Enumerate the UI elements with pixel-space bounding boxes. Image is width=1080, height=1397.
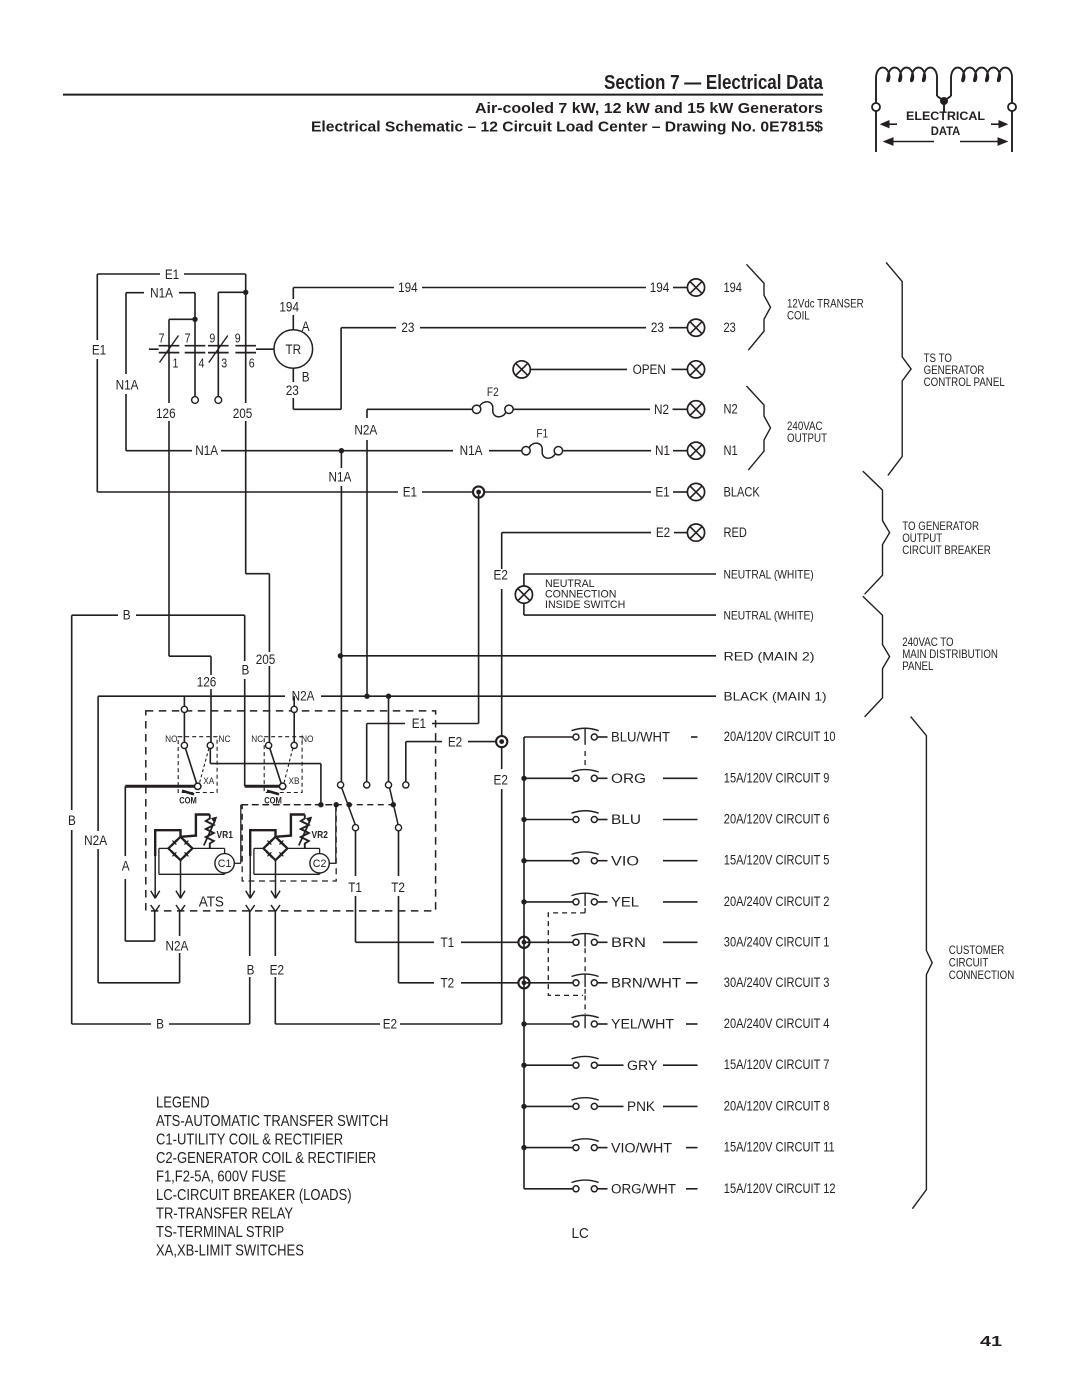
transfer contact arm 2 bbox=[390, 788, 399, 825]
svg-text:Section 7 — Electrical Data: Section 7 — Electrical Data bbox=[604, 71, 823, 94]
logo left lead wire bbox=[875, 77, 877, 103]
svg-text:205: 205 bbox=[233, 405, 253, 421]
logo right small arrow bbox=[991, 123, 1006, 125]
wire 23 row bbox=[341, 327, 396, 329]
breaker VIO/WHT bbox=[521, 1138, 834, 1155]
svg-text:15A/120V CIRCUIT 7: 15A/120V CIRCUIT 7 bbox=[724, 1056, 830, 1073]
svg-text:C1-UTILITY COIL & RECTIFIER: C1-UTILITY COIL & RECTIFIER bbox=[156, 1132, 343, 1149]
wire XA NC to C2 link bbox=[209, 749, 211, 764]
breaker VIO bbox=[521, 851, 829, 868]
wire contact1-contact2 link bbox=[169, 318, 195, 320]
svg-text:F1,F2-5A, 600V FUSE: F1,F2-5A, 600V FUSE bbox=[156, 1169, 286, 1186]
brace TS to generator control panel bbox=[886, 263, 911, 476]
svg-text:XA: XA bbox=[203, 775, 214, 786]
svg-text:15A/120V CIRCUIT 12: 15A/120V CIRCUIT 12 bbox=[724, 1179, 836, 1196]
svg-text:23: 23 bbox=[286, 382, 299, 398]
svg-text:N2A: N2A bbox=[84, 832, 107, 848]
wire A bold to XA COM bbox=[125, 785, 194, 788]
wire B bold to XB COM bbox=[245, 785, 280, 788]
logo left small arrow bbox=[882, 123, 897, 125]
wire red main 2 row bbox=[340, 655, 716, 657]
wire B left vertical bbox=[71, 615, 73, 810]
logo bottom double arrow bbox=[886, 141, 934, 143]
svg-text:BRN: BRN bbox=[611, 935, 646, 950]
svg-text:C1: C1 bbox=[218, 858, 232, 870]
svg-text:1: 1 bbox=[173, 355, 179, 370]
lamp N1 bbox=[687, 442, 704, 459]
wire 194 row bbox=[293, 287, 394, 289]
breaker YEL/WHT bbox=[521, 1015, 829, 1032]
svg-text:15A/120V CIRCUIT 11: 15A/120V CIRCUIT 11 bbox=[724, 1138, 835, 1155]
svg-text:B: B bbox=[123, 607, 131, 623]
node dot N1A/vertical bbox=[339, 448, 344, 453]
breaker BLU/WHT bbox=[524, 728, 836, 745]
svg-text:E1: E1 bbox=[655, 484, 669, 500]
svg-text:N1A: N1A bbox=[150, 285, 173, 301]
connector bullseye T2 bbox=[518, 977, 529, 988]
logo right lead wire bbox=[1011, 77, 1013, 103]
svg-text:E2: E2 bbox=[656, 524, 670, 540]
connector bullseye E2 bbox=[496, 736, 507, 747]
lamp E2 bbox=[687, 524, 704, 541]
svg-text:XB: XB bbox=[289, 775, 300, 786]
transfer relay contact 1 (pins 7/1) bbox=[149, 319, 179, 656]
svg-text:CIRCUIT: CIRCUIT bbox=[949, 957, 989, 970]
svg-text:NC: NC bbox=[219, 733, 231, 744]
breaker PNK bbox=[521, 1097, 829, 1114]
breaker bus vertical bbox=[523, 737, 525, 1189]
brace 12Vdc transfer coil bbox=[747, 264, 771, 350]
svg-text:OPEN: OPEN bbox=[633, 361, 666, 377]
svg-text:TR: TR bbox=[285, 341, 301, 357]
lamp E1 bbox=[687, 483, 704, 500]
svg-text:ORG/WHT: ORG/WHT bbox=[611, 1182, 676, 1197]
svg-text:T1: T1 bbox=[348, 879, 362, 895]
coil & rectifier C2 bbox=[246, 805, 336, 912]
svg-text:20A/240V CIRCUIT 4: 20A/240V CIRCUIT 4 bbox=[724, 1015, 830, 1032]
connector bullseye T1 bbox=[518, 937, 529, 948]
wire E1 vertical bbox=[478, 492, 480, 724]
svg-text:20A/120V CIRCUIT 8: 20A/120V CIRCUIT 8 bbox=[724, 1097, 830, 1114]
wire N2A vertical (F2 feed) bbox=[366, 409, 368, 418]
svg-text:N1A: N1A bbox=[328, 469, 351, 485]
svg-text:N2A: N2A bbox=[165, 937, 188, 953]
svg-text:E2: E2 bbox=[383, 1016, 397, 1032]
svg-text:T2: T2 bbox=[440, 974, 454, 990]
svg-text:126: 126 bbox=[197, 674, 217, 690]
C2 dashed box bbox=[242, 805, 336, 881]
svg-text:YEL/WHT: YEL/WHT bbox=[611, 1017, 674, 1032]
transfer relay contact 2 (pins 7/4) bbox=[185, 293, 206, 404]
svg-text:N1A: N1A bbox=[116, 377, 139, 393]
brace customer circuit connection bbox=[911, 717, 933, 1209]
fuse F2 bbox=[472, 386, 513, 417]
wire T1 bbox=[355, 831, 357, 876]
svg-text:ATS-AUTOMATIC TRANSFER SWITCH: ATS-AUTOMATIC TRANSFER SWITCH bbox=[156, 1113, 388, 1130]
svg-text:NEUTRAL (WHITE): NEUTRAL (WHITE) bbox=[724, 610, 814, 623]
svg-text:E1: E1 bbox=[92, 342, 106, 358]
svg-text:T2: T2 bbox=[391, 879, 405, 895]
svg-text:15A/120V CIRCUIT 9: 15A/120V CIRCUIT 9 bbox=[724, 769, 830, 786]
svg-text:E1: E1 bbox=[412, 715, 426, 731]
logo left terminal bbox=[872, 103, 880, 111]
wire TR bottom 23 bbox=[292, 368, 294, 382]
lamp 194 bbox=[687, 279, 704, 296]
svg-text:BRN/WHT: BRN/WHT bbox=[611, 976, 681, 991]
svg-text:LC: LC bbox=[572, 1225, 589, 1242]
svg-text:OUTPUT: OUTPUT bbox=[787, 432, 827, 445]
wire N1A vertical bbox=[340, 451, 342, 468]
svg-text:NO: NO bbox=[301, 733, 313, 744]
svg-text:N1A: N1A bbox=[460, 442, 483, 458]
svg-text:BLACK (MAIN 1): BLACK (MAIN 1) bbox=[724, 691, 827, 704]
svg-text:CONNECTION: CONNECTION bbox=[949, 969, 1014, 982]
svg-text:194: 194 bbox=[650, 279, 670, 295]
svg-text:COM: COM bbox=[179, 796, 197, 806]
wire contact3-contact4 link bbox=[218, 291, 245, 293]
svg-text:E2: E2 bbox=[448, 733, 462, 749]
svg-text:20A/240V CIRCUIT 2: 20A/240V CIRCUIT 2 bbox=[724, 893, 830, 910]
svg-text:ATS: ATS bbox=[199, 894, 224, 911]
svg-text:20A/120V CIRCUIT 6: 20A/120V CIRCUIT 6 bbox=[724, 810, 830, 827]
wire TR top to 194 row bbox=[292, 315, 294, 330]
wire B top horizontal bbox=[72, 614, 118, 616]
breaker YEL bbox=[521, 893, 829, 910]
breaker GRY bbox=[521, 1056, 829, 1073]
svg-text:E2: E2 bbox=[494, 566, 508, 582]
svg-text:RED (MAIN 2): RED (MAIN 2) bbox=[724, 650, 815, 663]
wire E2 bottom (C2 out) bbox=[274, 912, 276, 957]
svg-text:N1: N1 bbox=[655, 442, 670, 458]
svg-text:PNK: PNK bbox=[627, 1099, 655, 1114]
svg-text:BLU/WHT: BLU/WHT bbox=[611, 730, 670, 745]
transfer relay contact 4 (pins 9/6) bbox=[235, 274, 275, 574]
wire 126 jog bbox=[169, 655, 211, 657]
svg-text:E2: E2 bbox=[270, 962, 284, 978]
limit switch XB bbox=[251, 696, 313, 805]
wire black main 1 / N2A row bbox=[98, 695, 285, 697]
svg-text:205: 205 bbox=[256, 651, 276, 667]
logo right coil bbox=[951, 68, 1012, 82]
wire E1 top horizontal bbox=[97, 273, 160, 275]
svg-text:DATA: DATA bbox=[931, 124, 961, 138]
svg-text:15A/120V CIRCUIT 5: 15A/120V CIRCUIT 5 bbox=[724, 851, 830, 868]
lamp 23 bbox=[687, 319, 704, 336]
svg-text:41: 41 bbox=[980, 1334, 1002, 1350]
connector bullseye E1 bbox=[473, 486, 484, 497]
svg-text:6: 6 bbox=[249, 355, 255, 370]
mechanical linkage dashed bbox=[241, 804, 394, 806]
ATS dashed enclosure bbox=[146, 711, 436, 911]
wire neutral white top bbox=[524, 573, 716, 575]
svg-text:COIL: COIL bbox=[787, 310, 810, 323]
lamp neutral connection bbox=[515, 586, 532, 603]
svg-text:23: 23 bbox=[401, 319, 414, 335]
wire E1 row bbox=[97, 491, 398, 493]
svg-text:B: B bbox=[68, 812, 76, 828]
wire neutral white bottom bbox=[524, 614, 716, 616]
svg-text:E2: E2 bbox=[494, 771, 508, 787]
svg-text:9: 9 bbox=[209, 330, 215, 345]
svg-text:LEGEND: LEGEND bbox=[156, 1095, 209, 1112]
breaker BRN/WHT bbox=[524, 973, 829, 990]
wire N2 row bbox=[367, 408, 472, 410]
node dot N2A/contact3 bbox=[386, 694, 391, 699]
svg-text:YEL: YEL bbox=[611, 895, 640, 910]
wire E1 into ATS bbox=[432, 723, 479, 725]
svg-text:N2A: N2A bbox=[292, 688, 315, 704]
breaker BRN bbox=[524, 933, 829, 950]
transfer relay TR bbox=[274, 330, 313, 369]
logo right terminal bbox=[1008, 103, 1016, 111]
svg-text:B: B bbox=[302, 369, 310, 385]
svg-text:N2: N2 bbox=[654, 401, 669, 417]
limit switch XA bbox=[165, 696, 231, 805]
svg-text:23: 23 bbox=[651, 319, 664, 335]
svg-text:9: 9 bbox=[235, 330, 241, 345]
svg-text:N2: N2 bbox=[724, 400, 738, 417]
svg-text:NEUTRAL (WHITE): NEUTRAL (WHITE) bbox=[724, 569, 814, 582]
svg-text:3: 3 bbox=[221, 355, 227, 370]
wire B vertical into ATS bbox=[244, 615, 246, 661]
wire OPEN row bbox=[531, 368, 628, 370]
transfer contact arm 1 bbox=[342, 788, 356, 825]
svg-text:PANEL: PANEL bbox=[902, 660, 933, 673]
svg-text:F1: F1 bbox=[536, 428, 548, 441]
wire E2 into ATS bbox=[468, 741, 497, 743]
svg-text:BLACK: BLACK bbox=[724, 483, 761, 500]
svg-text:Air-cooled 7 kW, 12 kW and 15: Air-cooled 7 kW, 12 kW and 15 kW Generat… bbox=[475, 101, 823, 117]
svg-text:N1: N1 bbox=[724, 442, 738, 459]
node dot N2A/contact2 bbox=[364, 694, 369, 699]
logo center tap bbox=[936, 77, 938, 96]
lamp N2 bbox=[687, 401, 704, 418]
svg-text:30A/240V CIRCUIT 3: 30A/240V CIRCUIT 3 bbox=[724, 973, 830, 990]
wire N1A top horizontal bbox=[126, 292, 144, 294]
wire B bottom (C2 out) bbox=[249, 912, 251, 957]
svg-text:20A/120V CIRCUIT 10: 20A/120V CIRCUIT 10 bbox=[724, 728, 836, 745]
wire E2 vertical bbox=[501, 533, 503, 569]
brace 240VAC to main distribution panel bbox=[863, 596, 890, 717]
wire N1A left inner vertical bbox=[125, 293, 127, 374]
wire T2 bbox=[398, 831, 400, 876]
svg-text:7: 7 bbox=[159, 330, 165, 345]
svg-text:30A/240V CIRCUIT 1: 30A/240V CIRCUIT 1 bbox=[724, 933, 830, 950]
transfer contact terminals N1A/E1/N2A/E2 bbox=[388, 696, 390, 782]
wire E2 row bbox=[502, 532, 651, 534]
svg-text:VIO: VIO bbox=[611, 853, 639, 868]
svg-text:CUSTOMER: CUSTOMER bbox=[949, 944, 1005, 957]
logo left coil bbox=[876, 68, 937, 82]
svg-text:Electrical Schematic – 12 Circ: Electrical Schematic – 12 Circuit Load C… bbox=[311, 120, 823, 136]
svg-text:INSIDE SWITCH: INSIDE SWITCH bbox=[545, 599, 625, 611]
svg-text:CONTROL PANEL: CONTROL PANEL bbox=[924, 376, 1005, 389]
breaker ORG/WHT bbox=[524, 1179, 836, 1196]
svg-text:E1: E1 bbox=[403, 484, 417, 500]
wire A (XA COM out) bbox=[124, 786, 126, 856]
contact lower terminals T1 T2 bbox=[352, 825, 358, 831]
svg-text:ELECTRICAL: ELECTRICAL bbox=[906, 109, 986, 123]
svg-text:BLU: BLU bbox=[611, 812, 641, 827]
brace 240VAC output bbox=[747, 386, 771, 470]
svg-text:N2A: N2A bbox=[354, 422, 377, 438]
svg-text:XA,XB-LIMIT SWITCHES: XA,XB-LIMIT SWITCHES bbox=[156, 1243, 304, 1260]
svg-text:194: 194 bbox=[279, 299, 299, 315]
breaker ORG bbox=[521, 769, 829, 786]
svg-text:VR2: VR2 bbox=[312, 829, 328, 840]
svg-text:A: A bbox=[302, 318, 310, 334]
svg-text:7: 7 bbox=[185, 330, 191, 345]
header rule bbox=[63, 94, 823, 96]
svg-text:NO: NO bbox=[165, 733, 177, 744]
svg-text:4: 4 bbox=[199, 355, 205, 370]
transfer relay contact 3 (pins 9/3) bbox=[208, 292, 229, 403]
wire N2A left vertical bbox=[97, 696, 99, 831]
wire N2A (C1 out) bbox=[179, 912, 181, 937]
svg-text:C2: C2 bbox=[313, 858, 327, 870]
coil & rectifier C1 bbox=[151, 805, 241, 912]
brace to generator output circuit breaker bbox=[863, 471, 890, 594]
svg-text:GRY: GRY bbox=[627, 1058, 658, 1073]
wire N1A row bbox=[126, 450, 192, 452]
svg-text:VR1: VR1 bbox=[217, 829, 233, 840]
svg-text:ORG: ORG bbox=[611, 771, 646, 786]
svg-text:B: B bbox=[156, 1016, 164, 1032]
svg-text:NC: NC bbox=[251, 733, 263, 744]
svg-text:VIO/WHT: VIO/WHT bbox=[611, 1140, 672, 1155]
svg-text:C2-GENERATOR COIL & RECTIFIER: C2-GENERATOR COIL & RECTIFIER bbox=[156, 1150, 376, 1167]
svg-text:TS-TERMINAL STRIP: TS-TERMINAL STRIP bbox=[156, 1224, 284, 1241]
svg-text:194: 194 bbox=[398, 279, 418, 295]
svg-text:TR-TRANSFER RELAY: TR-TRANSFER RELAY bbox=[156, 1206, 293, 1223]
svg-text:B: B bbox=[247, 962, 255, 978]
svg-text:194: 194 bbox=[724, 278, 742, 295]
svg-text:LC-CIRCUIT BREAKER (LOADS): LC-CIRCUIT BREAKER (LOADS) bbox=[156, 1187, 352, 1204]
lamp OPEN left bbox=[513, 361, 530, 378]
svg-text:B: B bbox=[241, 662, 249, 678]
svg-text:CIRCUIT BREAKER: CIRCUIT BREAKER bbox=[902, 544, 991, 557]
svg-text:126: 126 bbox=[156, 405, 176, 421]
lamp OPEN right bbox=[687, 361, 704, 378]
svg-text:T1: T1 bbox=[440, 934, 454, 950]
wire neutral connection left vertical bbox=[523, 574, 525, 586]
fuse F1 bbox=[522, 428, 563, 459]
wire E1 left outer vertical bbox=[96, 274, 98, 340]
breaker gang ties dashed bbox=[584, 751, 586, 767]
wire 205 jog bbox=[246, 573, 270, 575]
svg-text:A: A bbox=[122, 857, 130, 873]
svg-text:F2: F2 bbox=[487, 386, 499, 399]
svg-text:E1: E1 bbox=[165, 266, 179, 282]
breaker BLU bbox=[521, 810, 829, 827]
svg-text:N1A: N1A bbox=[195, 442, 218, 458]
svg-text:RED: RED bbox=[724, 524, 747, 541]
svg-text:23: 23 bbox=[724, 318, 736, 335]
